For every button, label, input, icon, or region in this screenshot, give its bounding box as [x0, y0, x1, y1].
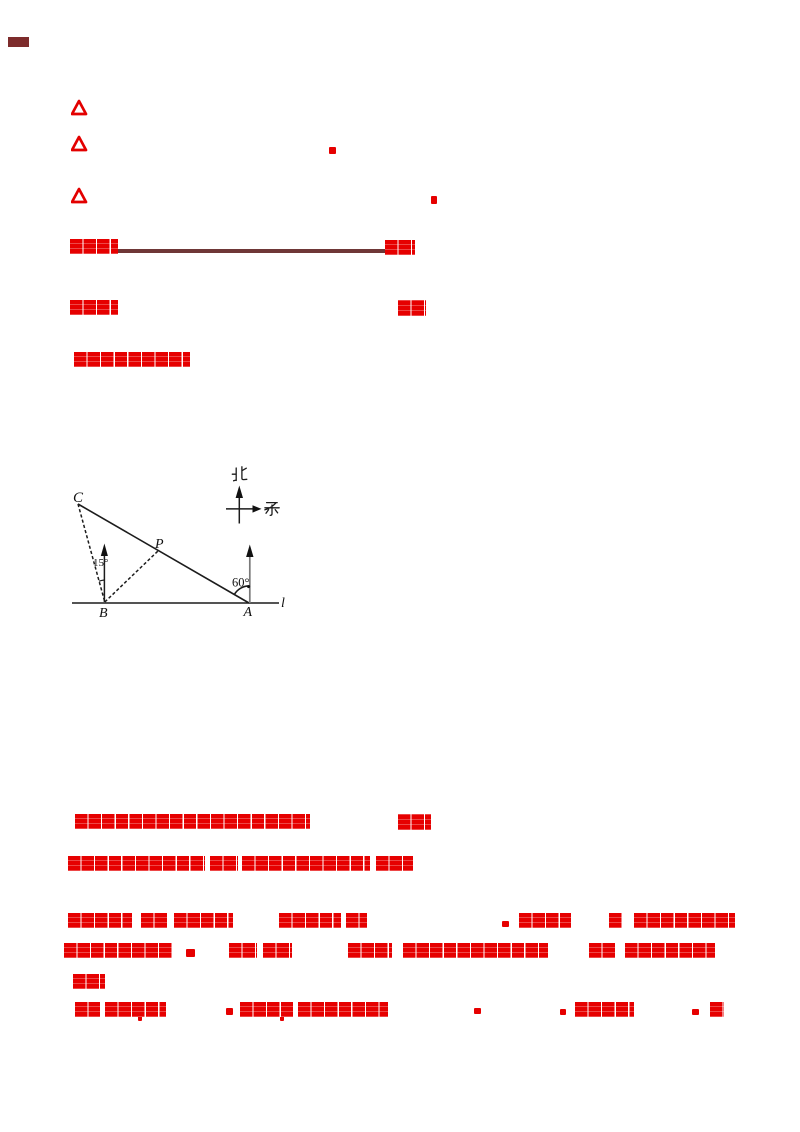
red comma mark line 3 [431, 196, 437, 204]
analysis right red text [398, 300, 426, 316]
line l (horizontal baseline) [72, 602, 279, 604]
segment C-A [78, 504, 249, 603]
compass horizontal line [226, 508, 253, 510]
solution step 2 red text d [376, 856, 413, 871]
hanzi east (dong) strokes [265, 503, 279, 516]
answer label red text [70, 239, 118, 254]
north arrow at A (shaft) [249, 556, 251, 603]
segment B-P dashed [105, 550, 159, 602]
paragraph line 3 [73, 974, 105, 989]
paragraph line 4 segments [75, 1002, 100, 1017]
svg-text:60°: 60° [232, 576, 250, 590]
hanzi north (bei) strokes [232, 468, 236, 481]
analysis label red text [70, 300, 118, 315]
answer unit red text [385, 240, 415, 255]
angle arc 60 at A [234, 586, 249, 594]
angle arc 15 at B [99, 580, 104, 581]
segment C-B dashed [78, 504, 105, 602]
compass east arrowhead [253, 505, 262, 512]
answer blank underline [118, 249, 387, 253]
compass north arrowhead [236, 486, 243, 499]
svg-text:C: C [73, 490, 84, 506]
arrowhead at B [101, 544, 108, 557]
red triangle marker line 2 [71, 135, 89, 153]
dot where arc meets A arrow [247, 585, 250, 588]
svg-text:15°: 15° [93, 557, 108, 569]
north arrow at B [103, 554, 105, 602]
paragraph line 1 segments [68, 913, 132, 928]
svg-text:l: l [281, 596, 285, 611]
red triangle marker line 1 [71, 99, 89, 117]
solution step 2 red text c [242, 856, 370, 871]
conclusion red text [74, 352, 190, 367]
svg-text:A: A [243, 605, 253, 620]
solution step 1 red text [75, 814, 310, 829]
compass vertical line [238, 496, 240, 524]
solution step 2 red text b [210, 856, 238, 871]
solution step 1 right red text [398, 814, 431, 830]
geometry diagram [63, 462, 290, 623]
solution step 2 red text a [68, 856, 205, 871]
paragraph line 4 comma descenders [138, 1016, 142, 1021]
red comma mark line 2 [329, 147, 336, 154]
arrowhead at A [246, 545, 253, 558]
red triangle marker line 3 [71, 187, 89, 205]
paragraph line 2 segments [64, 943, 172, 958]
svg-text:P: P [154, 537, 164, 552]
svg-text:B: B [99, 606, 108, 621]
top-left dark red mark [8, 37, 29, 47]
